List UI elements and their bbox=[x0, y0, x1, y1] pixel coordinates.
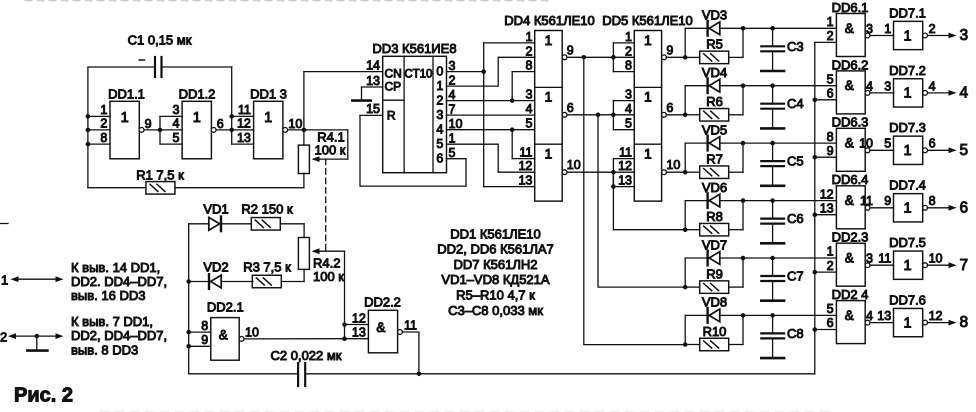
wire: R5 to diode node bbox=[742, 28, 744, 57]
wire: R4.2 wiper down to DD2.2 inputs bbox=[344, 251, 346, 339]
svg-text:8: 8 bbox=[960, 314, 969, 331]
svg-text:DD3 К561ИЕ8: DD3 К561ИЕ8 bbox=[372, 41, 456, 56]
svg-text:DD7.1: DD7.1 bbox=[889, 5, 926, 20]
svg-text:VD5: VD5 bbox=[702, 122, 727, 137]
svg-text:R6: R6 bbox=[706, 94, 723, 109]
svg-text:13: 13 bbox=[352, 326, 366, 340]
wire: DD3 out4 to DD4 pins 5 and 11 bbox=[447, 129, 535, 131]
node: stage 3 input junction bbox=[683, 170, 688, 175]
svg-text:3: 3 bbox=[960, 27, 969, 44]
svg-text:5: 5 bbox=[449, 146, 456, 160]
svg-text:C5: C5 bbox=[787, 154, 804, 169]
svg-text:выв. 8 DD3: выв. 8 DD3 bbox=[71, 342, 138, 357]
wire: route DD4 out9 down to stage 6 input bbox=[584, 57, 685, 344]
svg-text:14: 14 bbox=[366, 58, 380, 72]
svg-text:10: 10 bbox=[245, 325, 259, 339]
svg-text:К выв. 14 DD1,: К выв. 14 DD1, bbox=[71, 260, 160, 275]
svg-text:R5: R5 bbox=[706, 37, 723, 52]
svg-text:1: 1 bbox=[1, 272, 8, 287]
node: stage 1 input junction bbox=[683, 55, 688, 60]
svg-text:4: 4 bbox=[525, 102, 532, 116]
svg-text:2: 2 bbox=[827, 29, 834, 43]
wire: DD3 out5 to DD4 pin 12 bbox=[447, 144, 535, 172]
output arrow 6 bbox=[928, 207, 951, 209]
output arrow 3 bbox=[928, 35, 951, 37]
wire: stage 6 node to gate DD2 4 first input bbox=[773, 314, 837, 316]
svg-text:5: 5 bbox=[827, 72, 834, 86]
wire: strobe bus to DD6.3 second input bbox=[815, 156, 837, 158]
svg-text:VD8: VD8 bbox=[702, 295, 727, 310]
svg-text:DD7 К561ЛН2: DD7 К561ЛН2 bbox=[453, 257, 537, 272]
svg-text:DD2.1: DD2.1 bbox=[207, 300, 244, 315]
svg-text:1: 1 bbox=[644, 145, 652, 161]
wire: DD1.3 output node A bbox=[288, 129, 304, 131]
wire: R8 to diode node bbox=[742, 201, 744, 230]
wire: DD6.4 output to inverter DD7.4 bbox=[870, 207, 894, 209]
svg-text:5: 5 bbox=[827, 302, 834, 316]
svg-text:DD6.1: DD6.1 bbox=[832, 0, 869, 15]
node: VD1/VD2 left rail bbox=[188, 224, 190, 374]
svg-text:DD2.3: DD2.3 bbox=[832, 230, 869, 245]
wire: DD1.1 output to DD1.2 input bracket bbox=[144, 129, 160, 131]
potentiometer R4.1 100 к bbox=[303, 130, 305, 145]
faint page-edge marks bbox=[25, 0, 552, 2]
svg-text:1: 1 bbox=[827, 15, 834, 29]
capacitor C5 0,033 мк to common bbox=[770, 141, 775, 146]
svg-text:6: 6 bbox=[217, 117, 224, 131]
svg-text:DD1.2: DD1.2 bbox=[179, 87, 216, 102]
svg-text:1: 1 bbox=[827, 245, 834, 259]
svg-text:2: 2 bbox=[929, 22, 936, 36]
node: stage 6 input junction bbox=[683, 342, 688, 347]
svg-text:3: 3 bbox=[884, 79, 891, 93]
svg-text:13: 13 bbox=[618, 174, 632, 188]
capacitor C7 0,033 мк to common bbox=[770, 256, 775, 261]
svg-text:DD5 К561ЛЕ10: DD5 К561ЛЕ10 bbox=[602, 13, 693, 28]
svg-text:DD1.1: DD1.1 bbox=[108, 87, 145, 102]
potentiometer R4.2 100 к bbox=[298, 238, 309, 270]
svg-text:DD7.4: DD7.4 bbox=[889, 178, 926, 193]
wire: top loop from left rail to C1 and over to DD1.3 input node bbox=[88, 67, 155, 116]
svg-text:3: 3 bbox=[436, 108, 443, 122]
svg-text:DD7.5: DD7.5 bbox=[889, 235, 926, 250]
svg-text:12: 12 bbox=[929, 309, 943, 323]
wire: R3 to R4.2 bottom bbox=[303, 269, 305, 281]
wire: DD3 out2 to DD4 pins 3 and 8 bbox=[447, 100, 535, 102]
svg-text:DD7.3: DD7.3 bbox=[889, 120, 926, 135]
svg-text:R: R bbox=[387, 109, 396, 123]
svg-text:11: 11 bbox=[619, 146, 632, 160]
wire: DD1.2 output to DD1.3 input bracket (joined by C1 return) bbox=[216, 129, 232, 131]
svg-text:8: 8 bbox=[525, 59, 532, 73]
wire: DD4 out10 to DD5 gate3 bracket / stage 4 route bbox=[567, 171, 613, 173]
svg-text:1: 1 bbox=[121, 110, 129, 126]
svg-text:6: 6 bbox=[960, 199, 969, 216]
svg-text:5: 5 bbox=[625, 117, 632, 131]
svg-text:6: 6 bbox=[436, 151, 443, 165]
svg-text:C4: C4 bbox=[787, 96, 804, 111]
output arrow 4 bbox=[928, 92, 951, 94]
svg-text:12: 12 bbox=[618, 159, 632, 173]
svg-text:DD1 3: DD1 3 bbox=[250, 87, 287, 102]
wire: DD3 out6 stub (feeds reset loop) bbox=[447, 158, 467, 160]
svg-text:9: 9 bbox=[201, 333, 208, 347]
svg-text:4: 4 bbox=[866, 79, 873, 93]
svg-text:R2 150 к: R2 150 к bbox=[241, 202, 293, 217]
capacitor C4 0,033 мк to common bbox=[770, 83, 775, 88]
svg-text:DD2, DD6 К561ЛА7: DD2, DD6 К561ЛА7 bbox=[437, 242, 554, 257]
svg-text:1: 1 bbox=[644, 89, 652, 105]
wire: R2 to R4.2 top bbox=[303, 224, 305, 238]
wire: stage 5 node to gate DD2.3 first input bbox=[773, 257, 837, 259]
svg-text:6: 6 bbox=[666, 101, 673, 115]
svg-text:4: 4 bbox=[960, 85, 969, 102]
svg-text:C7: C7 bbox=[787, 269, 804, 284]
svg-text:1: 1 bbox=[884, 22, 891, 36]
DD5 gate3 input bracket pins 11,12,13 bbox=[612, 159, 614, 187]
svg-text:1: 1 bbox=[545, 145, 553, 161]
wire: DD6.2 output to inverter DD7.2 bbox=[870, 92, 894, 94]
svg-text:13: 13 bbox=[237, 131, 251, 145]
wire: DD3 out1 to DD4 pin 2 bbox=[447, 57, 535, 86]
dashed mechanical link between R4.1 and R4.2 wipers bbox=[325, 159, 327, 251]
node: stage 4 input junction bbox=[683, 227, 688, 232]
wire: DD4 out6 to DD5 gate2 bracket and down-route to stage 5 bbox=[567, 114, 613, 116]
svg-text:13: 13 bbox=[877, 309, 891, 323]
svg-text:1: 1 bbox=[644, 32, 652, 48]
svg-text:1: 1 bbox=[436, 79, 443, 93]
svg-text:7: 7 bbox=[960, 257, 969, 274]
svg-text:C2 0,022 мк: C2 0,022 мк bbox=[271, 348, 342, 363]
svg-text:DD6.3: DD6.3 bbox=[832, 115, 869, 130]
node: stage 2 input junction bbox=[683, 113, 688, 118]
wire: DD2 4 output to inverter DD7.6 bbox=[870, 322, 894, 324]
svg-text:R1 7,5 к: R1 7,5 к bbox=[136, 167, 184, 182]
strobe bus: vertical line feeding second inputs of DD6/DD2 gates bbox=[814, 42, 816, 373]
DD4 gate outputs 9, 6, 10 bbox=[562, 55, 567, 60]
svg-text:&: & bbox=[845, 21, 854, 36]
svg-text:1: 1 bbox=[449, 131, 456, 145]
svg-text:4: 4 bbox=[929, 79, 936, 93]
svg-text:6: 6 bbox=[929, 137, 936, 151]
node: stage 5 input junction bbox=[683, 285, 688, 290]
svg-text:VD2: VD2 bbox=[203, 260, 228, 275]
svg-text:8: 8 bbox=[929, 194, 936, 208]
svg-text:К выв. 7 DD1,: К выв. 7 DD1, bbox=[71, 314, 153, 329]
output arrow 5 bbox=[928, 149, 951, 151]
svg-text:&: & bbox=[845, 193, 854, 208]
svg-text:DD2, DD4–DD7,: DD2, DD4–DD7, bbox=[71, 328, 167, 343]
svg-text:&: & bbox=[219, 327, 228, 342]
wire: DD3 out0 to DD4 pins 1 and 13 bbox=[447, 71, 484, 73]
svg-text:8: 8 bbox=[201, 319, 208, 333]
svg-text:12: 12 bbox=[820, 187, 834, 201]
svg-text:2: 2 bbox=[827, 259, 834, 273]
output arrow 8 bbox=[928, 322, 951, 324]
svg-text:С3–С8 0,033 мк: С3–С8 0,033 мк bbox=[448, 303, 543, 318]
svg-text:C6: C6 bbox=[787, 211, 804, 226]
wire: bottom feedback line to strobe bus bbox=[305, 373, 815, 375]
svg-text:2: 2 bbox=[525, 44, 532, 58]
svg-text:5: 5 bbox=[172, 131, 179, 145]
wire: R7 to diode node bbox=[742, 143, 744, 172]
svg-text:&: & bbox=[845, 251, 854, 266]
svg-text:9: 9 bbox=[666, 43, 673, 57]
svg-text:9: 9 bbox=[884, 194, 891, 208]
wire: strobe bus to DD6.4 second input bbox=[815, 214, 837, 216]
svg-text:Рис. 2: Рис. 2 bbox=[14, 385, 73, 407]
wire: DD4 out9 to DD5 gate1 bracket and down-route to stage 6 bbox=[567, 56, 613, 58]
wire: DD5 out9 to stage 1 input bbox=[666, 56, 685, 58]
wire: DD5 out6 to stage 2 input bbox=[666, 114, 685, 116]
DD5 gate2 input bracket pins 3,4,5 bbox=[612, 101, 614, 130]
svg-text:1: 1 bbox=[904, 201, 912, 217]
svg-text:C1 0,15 мк: C1 0,15 мк bbox=[128, 33, 192, 48]
svg-text:3: 3 bbox=[866, 252, 873, 266]
svg-text:DD6.2: DD6.2 bbox=[832, 57, 869, 72]
svg-text:10: 10 bbox=[859, 137, 873, 151]
svg-text:1: 1 bbox=[904, 315, 912, 331]
svg-text:выв. 16 DD3: выв. 16 DD3 bbox=[71, 288, 145, 303]
svg-text:R5–R10 4,7 к: R5–R10 4,7 к bbox=[456, 288, 535, 303]
wire: reset feedback loop from output 6 to R input bbox=[360, 115, 466, 186]
svg-text:DD2. DD4–DD7,: DD2. DD4–DD7, bbox=[71, 274, 167, 289]
svg-text:2: 2 bbox=[625, 44, 632, 58]
capacitor C1 0,15 мк bbox=[154, 57, 156, 77]
svg-text:DD6.4: DD6.4 bbox=[832, 172, 869, 187]
svg-text:VD1–VD8 КД521А: VD1–VD8 КД521А bbox=[441, 272, 549, 287]
svg-text:5: 5 bbox=[884, 137, 891, 151]
svg-text:2: 2 bbox=[0, 329, 7, 344]
svg-text:0: 0 bbox=[436, 64, 443, 78]
svg-text:4: 4 bbox=[625, 102, 632, 116]
svg-text:6: 6 bbox=[567, 101, 574, 115]
svg-text:8: 8 bbox=[827, 130, 834, 144]
wire: DD2.3 output to inverter DD7.5 bbox=[870, 264, 894, 266]
svg-text:13: 13 bbox=[366, 74, 380, 88]
svg-text:1: 1 bbox=[904, 28, 912, 44]
svg-text:4: 4 bbox=[449, 88, 456, 102]
svg-text:5: 5 bbox=[960, 142, 969, 159]
svg-text:1: 1 bbox=[904, 258, 912, 274]
svg-text:13: 13 bbox=[820, 201, 834, 215]
svg-text:CT10: CT10 bbox=[404, 69, 432, 81]
wire: stage 2 node to gate DD6.2 first input bbox=[773, 85, 837, 87]
svg-text:VD4: VD4 bbox=[702, 65, 727, 80]
svg-text:10: 10 bbox=[666, 158, 680, 172]
svg-text:11: 11 bbox=[860, 194, 873, 208]
svg-text:&: & bbox=[376, 320, 385, 335]
wire: R9 to diode node bbox=[742, 258, 744, 287]
svg-text:10: 10 bbox=[929, 252, 943, 266]
capacitor C8 0,033 мк to common bbox=[770, 313, 775, 318]
svg-text:1: 1 bbox=[193, 110, 201, 126]
wire: R6 to diode node bbox=[742, 86, 744, 115]
svg-text:3: 3 bbox=[525, 88, 532, 102]
svg-text:R9: R9 bbox=[706, 266, 723, 281]
svg-text:VD1: VD1 bbox=[203, 202, 228, 217]
DD5 gate1 input bracket pins 1,2,8 bbox=[612, 43, 614, 72]
svg-text:1: 1 bbox=[545, 32, 553, 48]
node: left input rail of DD1.1 bbox=[87, 116, 89, 187]
svg-text:11: 11 bbox=[519, 146, 532, 160]
svg-text:10: 10 bbox=[449, 117, 463, 131]
svg-text:DD7.6: DD7.6 bbox=[889, 293, 926, 308]
svg-text:15: 15 bbox=[366, 102, 380, 116]
svg-text:9: 9 bbox=[567, 43, 574, 57]
wire: DD2.2 output down to bottom feedback line bbox=[402, 332, 419, 374]
svg-text:3: 3 bbox=[449, 59, 456, 73]
svg-text:&: & bbox=[845, 308, 854, 323]
svg-text:1: 1 bbox=[100, 103, 107, 117]
svg-text:R10: R10 bbox=[703, 324, 727, 339]
svg-text:VD6: VD6 bbox=[702, 180, 727, 195]
svg-text:1: 1 bbox=[525, 30, 532, 44]
svg-text:DD4 К561ЛЕ10: DD4 К561ЛЕ10 bbox=[504, 13, 595, 28]
svg-text:VD3: VD3 bbox=[702, 8, 727, 23]
svg-text:6: 6 bbox=[827, 316, 834, 330]
wire: stage 1 node to gate DD6.1 first input bbox=[773, 27, 837, 29]
svg-text:3: 3 bbox=[625, 88, 632, 102]
wire: DD6.3 output to inverter DD7.3 bbox=[870, 149, 894, 151]
svg-text:11: 11 bbox=[404, 318, 417, 332]
svg-text:1: 1 bbox=[625, 30, 632, 44]
svg-text:100 к: 100 к bbox=[313, 269, 344, 284]
capacitor C6 0,033 мк to common bbox=[770, 198, 775, 203]
svg-text:1: 1 bbox=[264, 110, 272, 126]
svg-text:2: 2 bbox=[100, 117, 107, 131]
svg-text:2: 2 bbox=[436, 93, 443, 107]
wire: DD3 out3 to DD4 pin 4 bbox=[447, 114, 535, 116]
svg-text:3: 3 bbox=[866, 22, 873, 36]
svg-text:DD1 К561ЛЕ10: DD1 К561ЛЕ10 bbox=[450, 226, 541, 241]
svg-text:1: 1 bbox=[904, 143, 912, 159]
svg-text:13: 13 bbox=[518, 174, 532, 188]
svg-text:&: & bbox=[845, 78, 854, 93]
svg-text:9: 9 bbox=[827, 144, 834, 158]
wire: R10 to diode node bbox=[742, 315, 744, 344]
DD5 gate outputs 9, 6, 10 bbox=[662, 55, 667, 60]
svg-text:C3: C3 bbox=[787, 39, 804, 54]
svg-text:6: 6 bbox=[827, 87, 834, 101]
svg-text:CN: CN bbox=[385, 67, 402, 81]
wire: route DD4 out6 down to stage 5 input bbox=[598, 115, 685, 287]
wire: route DD4 out10 down to stage 4 input bbox=[613, 172, 685, 230]
svg-text:1: 1 bbox=[904, 86, 912, 102]
wire: strobe bus to DD2 4 second input bbox=[815, 329, 837, 331]
svg-text:C8: C8 bbox=[787, 326, 804, 341]
svg-text:9: 9 bbox=[145, 117, 152, 131]
svg-text:2: 2 bbox=[449, 73, 456, 87]
svg-text:100 к: 100 к bbox=[315, 143, 346, 158]
svg-text:7: 7 bbox=[449, 102, 456, 116]
wire: strobe bus to DD6.1 second input bbox=[815, 41, 837, 43]
svg-text:5: 5 bbox=[525, 117, 532, 131]
svg-text:4: 4 bbox=[866, 309, 873, 323]
svg-text:11: 11 bbox=[238, 103, 251, 117]
svg-text:10: 10 bbox=[567, 158, 581, 172]
wire: node A up to DD3 CN input (pin 14) bbox=[303, 72, 305, 130]
capacitor C3 0,033 мк to common bbox=[770, 26, 775, 31]
svg-text:5: 5 bbox=[436, 137, 443, 151]
svg-text:&: & bbox=[845, 136, 854, 151]
svg-text:R7: R7 bbox=[706, 152, 723, 167]
svg-text:R3 7,5 к: R3 7,5 к bbox=[243, 260, 291, 275]
svg-text:3: 3 bbox=[172, 103, 179, 117]
wire: strobe bus to DD6.2 second input bbox=[815, 99, 837, 101]
wire: DD6.1 output to inverter DD7.1 bbox=[870, 35, 894, 37]
svg-text:12: 12 bbox=[352, 311, 366, 325]
output arrow 7 bbox=[928, 264, 951, 266]
svg-text:12: 12 bbox=[518, 159, 532, 173]
svg-text:10: 10 bbox=[288, 117, 302, 131]
wire: stage 4 node to gate DD6.4 first input bbox=[773, 200, 837, 202]
svg-text:CP: CP bbox=[384, 80, 401, 94]
svg-text:DD7.2: DD7.2 bbox=[889, 63, 926, 78]
svg-text:12: 12 bbox=[237, 117, 251, 131]
svg-text:8: 8 bbox=[625, 59, 632, 73]
wire: DD2.1 output to DD2.2 tied inputs bbox=[244, 338, 345, 340]
svg-text:11: 11 bbox=[878, 252, 891, 266]
svg-text:VD7: VD7 bbox=[702, 237, 727, 252]
wire: DD5 out10 to stage 3 input bbox=[666, 171, 685, 173]
svg-text:8: 8 bbox=[100, 131, 107, 145]
svg-text:DD2 4: DD2 4 bbox=[832, 287, 869, 302]
svg-text:4: 4 bbox=[172, 117, 179, 131]
svg-text:DD2.2: DD2.2 bbox=[364, 294, 401, 309]
wire: strobe bus to DD2.3 second input bbox=[815, 271, 837, 273]
svg-text:1: 1 bbox=[545, 89, 553, 105]
wire: stage 3 node to gate DD6.3 first input bbox=[773, 142, 837, 144]
svg-text:R8: R8 bbox=[706, 209, 723, 224]
svg-text:4: 4 bbox=[436, 122, 443, 136]
